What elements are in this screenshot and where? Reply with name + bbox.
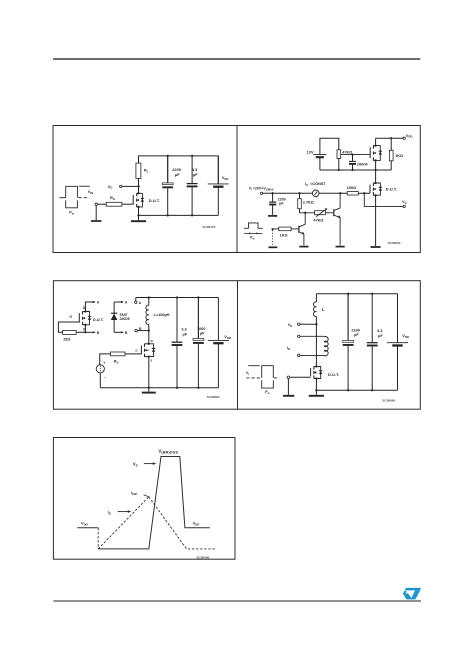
ST logo [403, 588, 421, 600]
top header rule [53, 58, 420, 60]
svg-text:B: B [97, 331, 100, 335]
svg-text:VDD: VDD [81, 521, 88, 527]
box4 mosfet D.U.T. [310, 368, 312, 376]
box4 battery VDD [397, 294, 399, 343]
svg-text:D.U.T.: D.U.T. [149, 198, 160, 203]
box3 source generator [96, 365, 104, 373]
svg-text:VG: VG [402, 199, 407, 205]
svg-text:VDD: VDD [402, 333, 409, 339]
wave ID trace dashed [98, 497, 149, 549]
box1 mosfet D.U.T. [132, 195, 134, 205]
svg-text:VDD: VDD [406, 133, 413, 139]
svg-text:2200: 2200 [351, 328, 359, 332]
svg-text:B: B [125, 331, 128, 335]
box1 resistor RL [136, 163, 141, 178]
svg-text:−: − [104, 376, 106, 380]
box2 resistor 1K (drain) [390, 138, 392, 150]
svg-text:VDD: VDD [222, 175, 229, 181]
box2 capacitor 2200uF [272, 193, 274, 202]
box2 VG probe wire [364, 193, 403, 206]
svg-text:L: L [322, 307, 325, 312]
svg-text:1KΩ: 1KΩ [395, 154, 403, 158]
box2 lower rail of clamp [320, 169, 391, 171]
svg-text:SC08680: SC08680 [207, 395, 220, 399]
box2 pulse generator symbol [244, 227, 249, 229]
box4 VD tap [315, 323, 317, 325]
box4 gate input terminal [287, 376, 290, 379]
box1 wire RL to drain [138, 179, 140, 194]
box1 resistor RG [106, 202, 122, 206]
svg-text:µF: µF [193, 172, 198, 177]
box2 transistor Q2 [333, 209, 335, 216]
box4 wire terminal to gate [290, 376, 311, 378]
box3 wire drain to A [85, 302, 92, 312]
box1 wire source to rail [138, 207, 140, 216]
box4 current probe loop [298, 335, 300, 337]
box2 wire clamp to DUT drain [375, 160, 377, 183]
box1 capacitor 3.3uF [191, 156, 193, 184]
svg-text:SC08490: SC08490 [196, 556, 209, 560]
svg-text:2.7KΩ: 2.7KΩ [303, 200, 314, 204]
box1 wire RG to gate [122, 203, 133, 205]
svg-text:RG: RG [114, 359, 119, 364]
svg-text:Pw: Pw [250, 236, 255, 241]
box1 input terminal [95, 203, 97, 205]
box3 ground [148, 388, 150, 392]
box3 diode FAST DIODE [111, 312, 118, 314]
box3 capacitor 1000uF [197, 298, 199, 339]
box3 wire mosfet source to rail [148, 357, 150, 388]
svg-text:S: S [83, 328, 85, 332]
svg-text:1000: 1000 [197, 327, 205, 331]
svg-text:SC08690: SC08690 [382, 399, 395, 403]
box2 wire 1K to Q1 base [291, 228, 299, 230]
box3 terminal A [135, 301, 137, 303]
box1 capacitor 2200uF [167, 156, 169, 183]
box3 capacitor 3.3uF [176, 298, 178, 343]
box3 resistor 25Ohm [63, 330, 77, 334]
wave VD trace [77, 527, 98, 529]
box4 pulse generator symbol [248, 365, 259, 367]
box3 top rail [136, 297, 219, 299]
box2 wire trimmer to Q2 base [325, 212, 333, 214]
box4 wire drain vertical [315, 324, 317, 366]
svg-text:V(BR)DSS: V(BR)DSS [158, 449, 178, 455]
box1 top supply rail [139, 156, 219, 184]
svg-text:12V: 12V [307, 149, 314, 154]
box2 ground (Q1 emitter) [299, 246, 308, 248]
box3 wire source to B [84, 325, 86, 333]
box3 wire node to mosfet drain [148, 331, 150, 344]
box1 ground (source) [138, 215, 140, 220]
box1 junction top rail dots [167, 155, 169, 157]
box3 wire A to rail [135, 298, 137, 302]
box3 wire 25Ohm to source node [76, 331, 85, 333]
svg-text:VD: VD [288, 322, 293, 328]
box2 resistor 47K (upper) [337, 150, 341, 159]
box1 pulse generator symbol [59, 197, 65, 199]
svg-text:SC08470: SC08470 [202, 225, 215, 229]
svg-text:VIN: VIN [88, 189, 93, 195]
box2 wire DUT source to ground [375, 195, 377, 246]
box2 shield dotted line [272, 230, 274, 246]
svg-text:DIODE: DIODE [120, 317, 130, 321]
svg-text:ID: ID [287, 345, 290, 351]
box2 ground (shield) [269, 246, 278, 248]
box1 bottom rail [139, 214, 219, 216]
box2 p-mosfet clamp [369, 147, 371, 158]
box2 ground (2200uF) [268, 215, 277, 217]
box4 wire terminal to ground [287, 379, 289, 395]
box2 resistor 100R [347, 192, 358, 195]
box2 input terminal VI [260, 192, 262, 194]
box3 bottom rail [100, 387, 218, 389]
box2 VG terminal [403, 205, 405, 207]
svg-text:100nF: 100nF [357, 162, 369, 166]
box3 inductor L=100uH [148, 298, 150, 306]
box2 trimmer 47K [315, 211, 326, 215]
box2 current source IG [312, 190, 319, 197]
box3 mosfet D.U.T. (device option) [78, 313, 80, 323]
box2 capacitor 100nF [352, 155, 354, 162]
box1 wire probe to drain node [122, 185, 139, 187]
svg-text:25Ω: 25Ω [63, 338, 70, 342]
box3 wire B to inductor node [137, 330, 149, 332]
box2 gate drive node wire [341, 154, 371, 156]
box2 battery 12V [313, 154, 326, 156]
svg-text:VDD: VDD [193, 521, 200, 527]
svg-text:SC08600: SC08600 [388, 241, 401, 245]
svg-text:≈CONST: ≈CONST [310, 182, 326, 186]
svg-text:Pw: Pw [265, 390, 270, 395]
figure frame row 2 [53, 281, 420, 410]
box4 top rail [316, 293, 397, 295]
box4 wire source to rail [315, 379, 317, 391]
svg-text:µF: µF [175, 172, 180, 177]
svg-text:A: A [125, 301, 128, 305]
svg-text:47KΩ: 47KΩ [342, 151, 352, 155]
svg-text:A: A [97, 301, 100, 305]
svg-text:100Ω: 100Ω [347, 186, 356, 190]
box2 wire 2.7K to trimmer [300, 212, 315, 214]
svg-text:D.U.T.: D.U.T. [386, 187, 397, 192]
box4 inductor L [315, 294, 317, 302]
svg-text:VD: VD [133, 462, 139, 468]
figure frame row 1 divider [236, 126, 238, 253]
box3 battery VDD [217, 298, 219, 341]
svg-text:IDM: IDM [131, 490, 137, 496]
box2 wire IG to 100R [319, 192, 347, 194]
box1 wire input to ground [95, 205, 97, 220]
svg-text:VDD: VDD [224, 334, 231, 340]
svg-text:µF: µF [200, 332, 205, 336]
svg-text:µF: µF [183, 332, 188, 336]
box3 gate loop wire [58, 322, 79, 332]
box3 wire RG to gate [125, 353, 141, 355]
box2 wire 12V loop top [320, 138, 339, 154]
box1 ground (input) [91, 220, 101, 222]
box4 ground (source) [315, 390, 317, 395]
box2 mosfet D.U.T. [369, 185, 371, 193]
svg-text:3.3: 3.3 [377, 329, 382, 333]
box1 drain probe terminal [120, 185, 122, 187]
box2 transistor Q1 [298, 226, 300, 233]
box4 capacitor 3.3uF [371, 294, 373, 343]
svg-text:D.U.T.: D.U.T. [328, 372, 339, 377]
box2 ground (Q2 emitter) [336, 246, 345, 248]
box4 ground (input) [283, 395, 294, 397]
svg-text:L=100µH: L=100µH [154, 313, 170, 317]
svg-text:3.3: 3.3 [181, 328, 186, 332]
box2 gate current rail [263, 192, 313, 194]
box1 battery VDD [217, 156, 219, 184]
svg-text:47KΩ: 47KΩ [313, 219, 323, 223]
box4 capacitor 2200uF [347, 294, 349, 341]
svg-text:G: G [135, 349, 138, 353]
box3 mosfet (lower switch) [140, 345, 142, 354]
box2 resistor 2.7K [299, 193, 301, 198]
box2 resistor 1K (base) [279, 227, 291, 231]
svg-text:ID: ID [108, 510, 111, 516]
svg-text:µF: µF [378, 334, 383, 338]
box3 terminal B [135, 329, 137, 331]
box2 VDD rail [376, 137, 403, 139]
box3 wire source gen to rail [99, 373, 101, 388]
svg-text:A: A [139, 301, 142, 305]
svg-text:G: G [70, 315, 73, 319]
box2 wire 100R to DUT gate [358, 192, 370, 194]
box2 wire clamp source to VDD rail [375, 138, 377, 145]
svg-text:VI ≈20V+VGMAX: VI ≈20V+VGMAX [249, 187, 274, 192]
svg-text:VI: VI [246, 371, 249, 376]
box3 wire RG to source [100, 354, 111, 365]
svg-text:RG: RG [110, 195, 115, 201]
figure frame waveform box [53, 438, 235, 560]
svg-text:1KΩ: 1KΩ [280, 233, 288, 237]
box3 resistor RG [111, 352, 125, 356]
box4 bottom rail [316, 389, 397, 391]
box2 VDD terminal [403, 137, 405, 139]
svg-text:IG: IG [305, 181, 308, 187]
svg-text:S: S [150, 359, 152, 363]
box2 node 1K left [271, 228, 273, 230]
svg-text:µF: µF [279, 201, 284, 205]
svg-text:D: D [151, 339, 154, 343]
box2 ground (DUT source) [371, 246, 381, 248]
svg-text:VD: VD [108, 184, 113, 190]
figure frame row 2 divider [237, 281, 239, 410]
svg-text:RL: RL [144, 168, 149, 174]
svg-text:Pw: Pw [69, 210, 75, 216]
box2 wire 12V loop bottom [319, 157, 321, 170]
svg-text:µF: µF [354, 333, 359, 337]
box2 wire 47K to rail [338, 159, 340, 171]
box3 fast diode branch [113, 302, 115, 332]
svg-text:D.U.T.: D.U.T. [93, 317, 104, 322]
box1 wire input to RG [97, 203, 106, 205]
svg-text:+: + [103, 361, 105, 365]
bottom footer rule [54, 600, 422, 602]
figure frame row 1 [53, 126, 420, 253]
